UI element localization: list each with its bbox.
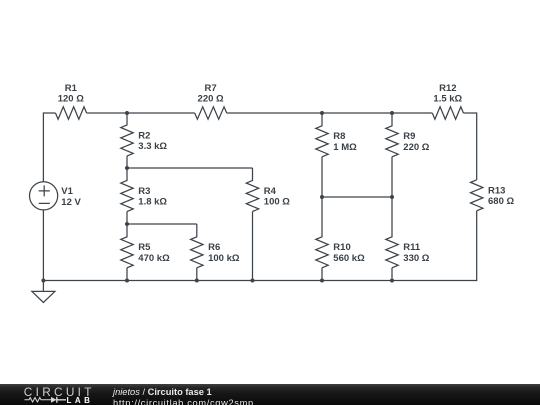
wire node row3 to R6 (127, 223, 197, 225)
resistor R6 (191, 224, 203, 281)
voltage source V1 (29, 182, 57, 210)
svg-text:R7: R7 (205, 83, 217, 94)
credit author/title (113, 388, 212, 397)
wire V1 to bottom rail (42, 210, 44, 281)
svg-text:330 Ω: 330 Ω (403, 253, 429, 264)
junction node B (R9/R12) (390, 111, 394, 115)
svg-text:100 Ω: 100 Ω (264, 197, 290, 208)
svg-text:R8: R8 (333, 131, 345, 142)
junction node E (R8/R10) (320, 195, 324, 199)
svg-text:LAB: LAB (67, 396, 94, 405)
svg-text:V1: V1 (61, 186, 73, 197)
resistor R12 (432, 107, 463, 119)
svg-text:R12: R12 (439, 83, 456, 94)
svg-text:120 Ω: 120 Ω (58, 94, 84, 105)
svg-text:R10: R10 (333, 242, 350, 253)
svg-text:560 kΩ: 560 kΩ (333, 253, 365, 264)
credit url (113, 399, 254, 405)
resistor R7 (195, 107, 227, 119)
junction node C (R2/R3/R4) (125, 166, 129, 170)
svg-text:R13: R13 (488, 185, 505, 196)
svg-text:R11: R11 (403, 242, 421, 253)
footer bar (0, 384, 540, 405)
resistor R4 (246, 168, 258, 281)
svg-text:680 Ω: 680 Ω (488, 196, 514, 207)
svg-text:12 V: 12 V (61, 197, 81, 208)
resistor R2 (121, 113, 133, 168)
svg-text:R9: R9 (403, 131, 415, 142)
junction node GND (R5) (125, 279, 129, 283)
logo resistor glyph (25, 398, 52, 402)
svg-text:100 kΩ: 100 kΩ (208, 253, 240, 264)
wire R1 to R7 (87, 112, 195, 114)
junction node E (R9/R11) (390, 195, 394, 199)
junction node GND (V1-) (41, 279, 45, 283)
svg-text:R5: R5 (138, 242, 151, 253)
svg-text:R3: R3 (138, 186, 150, 197)
svg-text:220 Ω: 220 Ω (198, 94, 224, 105)
wire R7 to R12 (227, 112, 433, 114)
svg-text:1 MΩ: 1 MΩ (333, 142, 357, 153)
resistor R9 (386, 113, 398, 197)
junction node A (R1/R2/R7) (125, 111, 129, 115)
wire mid node row (322, 196, 392, 198)
junction node GND (R6) (195, 279, 199, 283)
svg-text:1.5 kΩ: 1.5 kΩ (433, 94, 462, 105)
junction node B (R7/R8) (320, 111, 324, 115)
resistor R1 (56, 107, 87, 119)
resistor R10 (316, 197, 328, 281)
resistor R5 (121, 224, 133, 281)
svg-text:R2: R2 (138, 130, 150, 141)
junction node GND (R4) (251, 279, 255, 283)
svg-text:3.3 kΩ: 3.3 kΩ (138, 141, 167, 152)
wire ground stub (42, 281, 44, 292)
junction node GND (R10) (320, 279, 324, 283)
junction node GND (R11) (390, 279, 394, 283)
svg-text:R4: R4 (264, 186, 277, 197)
wire R13 to bottom rail (43, 211, 476, 281)
resistor R8 (316, 113, 328, 197)
svg-text:1.8 kΩ: 1.8 kΩ (138, 197, 167, 208)
logo diode (51, 397, 57, 403)
ground (32, 291, 55, 302)
resistor R3 (121, 168, 133, 224)
CircuitLab logo (20, 385, 104, 405)
wire left rail top corner (43, 113, 55, 182)
resistor R11 (386, 197, 398, 281)
resistor R13 (471, 180, 483, 211)
svg-text:R6: R6 (208, 242, 220, 253)
svg-text:470 kΩ: 470 kΩ (138, 253, 170, 264)
junction node D (R3/R5/R6) (125, 222, 129, 226)
svg-text:R1: R1 (65, 83, 78, 94)
svg-text:220 Ω: 220 Ω (403, 142, 429, 153)
wire node row2 to R4 (127, 167, 253, 169)
wire R12 to right rail corner (463, 113, 476, 180)
